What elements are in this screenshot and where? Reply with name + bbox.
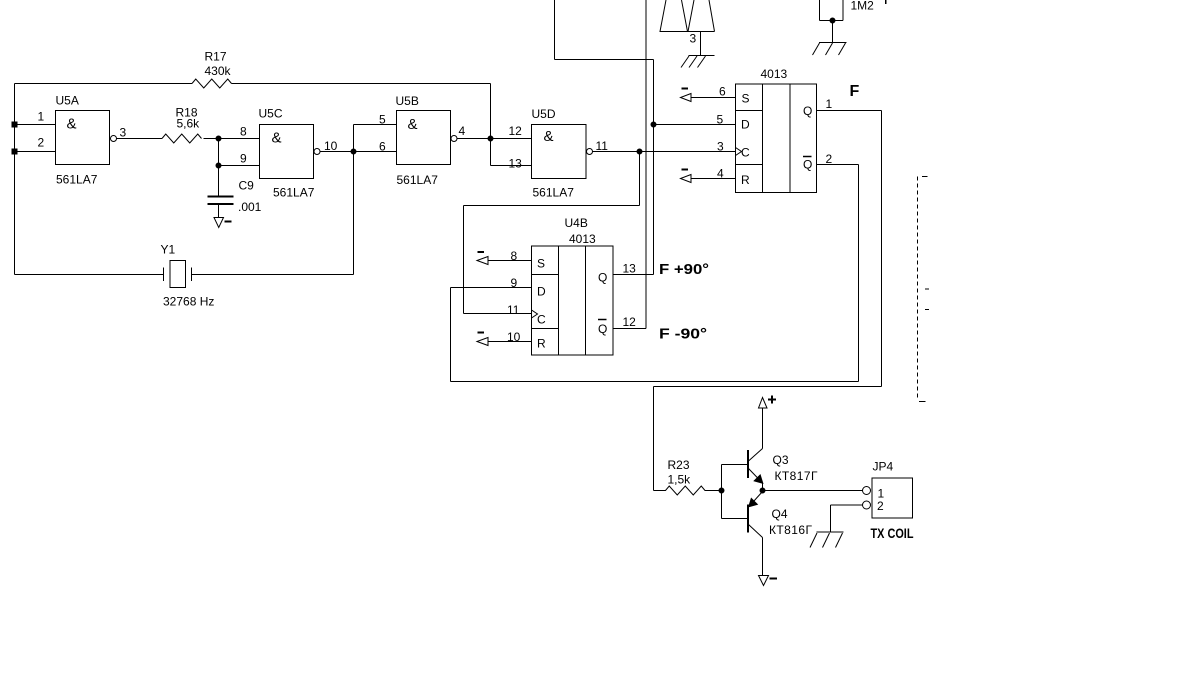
svg-text:F: F <box>850 83 860 100</box>
svg-text:13: 13 <box>623 262 637 276</box>
ground below triangles <box>689 55 715 57</box>
wire node down <box>218 139 220 166</box>
wire C9 bottom lead <box>218 204 220 218</box>
resistor R17 <box>192 79 232 88</box>
wire node vertical pin5-crystal <box>353 125 355 275</box>
flipflop FF1 4013 box <box>736 84 817 193</box>
svg-text:32768 Hz: 32768 Hz <box>163 295 214 309</box>
FF1 Qbar output wire pin2 <box>817 164 859 166</box>
svg-text:2: 2 <box>38 136 45 150</box>
crystal Y1 right wire <box>192 274 354 276</box>
wire F net horizontal <box>654 386 882 388</box>
dashed boundary line <box>917 177 919 399</box>
junction node pin4 <box>488 136 493 141</box>
svg-text:Q: Q <box>803 158 812 172</box>
wire D feedback vertical <box>450 288 452 382</box>
wire F+90 net vertical <box>653 60 655 275</box>
wire vertical down to U4B C <box>463 206 465 314</box>
U4B R input wire pin10 <box>488 341 532 343</box>
svg-text:&: & <box>408 116 418 133</box>
cut-off tick mark <box>885 0 887 4</box>
wire to U5C pin9 <box>219 165 260 167</box>
svg-text:12: 12 <box>623 315 637 329</box>
wire U5B pin5 <box>354 124 397 126</box>
svg-text:8: 8 <box>240 125 247 139</box>
wire Qbar feedback horizontal <box>451 381 859 383</box>
svg-text:D: D <box>741 118 750 132</box>
svg-text:U5C: U5C <box>259 107 283 121</box>
wire U5D pin13 <box>491 165 533 167</box>
node port square pin2 <box>12 149 17 154</box>
connector JP4 box <box>872 478 913 518</box>
svg-text:Q3: Q3 <box>773 453 789 467</box>
gate U5B bubble pin4 <box>451 136 457 142</box>
wire left feedback vertical <box>14 84 16 275</box>
ground below 1M2 <box>819 42 847 44</box>
ground below JP4 <box>817 531 844 533</box>
wire cut-off net top-left vertical <box>554 0 556 60</box>
gate U5D box <box>532 125 587 179</box>
resistor R18 <box>162 134 202 143</box>
svg-text:2: 2 <box>826 152 833 166</box>
gate U5D bubble pin11 <box>587 149 593 155</box>
wire node down pin13 <box>490 139 492 166</box>
wire Q3 collector up <box>762 408 764 449</box>
svg-text:10: 10 <box>324 139 338 153</box>
junction node pin10 <box>351 149 356 154</box>
resistor R23 <box>654 486 722 495</box>
ground minus arrow below C9 <box>214 218 224 228</box>
wire U5A pin1 <box>15 124 56 126</box>
FF1 R inactive-level symbol <box>681 175 692 183</box>
svg-text:КТ816Г: КТ816Г <box>769 523 813 537</box>
wire pin3 to ground <box>700 32 702 56</box>
svg-text:S: S <box>742 92 750 106</box>
svg-text:8: 8 <box>511 249 518 263</box>
svg-text:1: 1 <box>38 110 45 124</box>
wire U5D pin12 <box>491 138 533 140</box>
gate U5C box <box>260 125 314 179</box>
svg-text:5: 5 <box>379 113 386 127</box>
connector JP4 pin2 circle <box>863 501 871 509</box>
svg-text:Q: Q <box>598 322 607 336</box>
svg-text:S: S <box>537 257 545 271</box>
svg-text:561LA7: 561LA7 <box>273 186 315 200</box>
connector JP4 pin1 circle <box>863 487 871 495</box>
FF1 R input wire pin4 <box>691 178 736 180</box>
svg-text:F -90°: F -90° <box>659 326 707 343</box>
FF1 S input wire pin6 <box>691 97 736 99</box>
wire pin11 to FF1 C <box>593 151 736 153</box>
wire C9 top lead <box>218 166 220 197</box>
wire F-90 net vertical <box>645 0 647 329</box>
crystal Y1 left wire <box>15 274 164 276</box>
svg-text:Q4: Q4 <box>772 507 788 521</box>
svg-text:11: 11 <box>507 303 520 317</box>
svg-text:U5B: U5B <box>396 94 419 108</box>
svg-text:&: & <box>544 128 554 145</box>
svg-text:R: R <box>537 337 546 351</box>
capacitor C9 <box>208 197 234 205</box>
svg-text:R: R <box>741 173 750 187</box>
node port square pin1 <box>12 122 17 127</box>
svg-text:561LA7: 561LA7 <box>397 173 439 187</box>
svg-text:U5D: U5D <box>532 107 556 121</box>
svg-text:6: 6 <box>719 85 726 99</box>
wire Q4 collector down <box>762 538 764 576</box>
wire pin3 to R18 <box>117 138 163 140</box>
FF1 Q output wire pin1 <box>817 110 882 112</box>
svg-text:1: 1 <box>826 97 833 111</box>
transistor Q4 <box>747 505 749 533</box>
junction node FF1 D <box>651 122 656 127</box>
junction node pin9 <box>216 163 221 168</box>
U4B Q output wire pin13 <box>613 274 654 276</box>
svg-text:430k: 430k <box>205 64 232 78</box>
svg-text:2: 2 <box>877 499 884 513</box>
svg-text:1,5k: 1,5k <box>668 473 692 487</box>
wire top R17 net right <box>232 83 491 85</box>
U4B S input wire pin8 <box>488 260 532 262</box>
svg-text:561LA7: 561LA7 <box>56 173 98 187</box>
flipflop FF1 clock mark <box>736 148 742 156</box>
svg-text:U4B: U4B <box>565 216 588 230</box>
wire F net down to R23 <box>653 387 655 491</box>
svg-text:9: 9 <box>240 152 247 166</box>
wire 1M2 to ground <box>832 21 834 43</box>
junction node R23 bases <box>719 488 724 493</box>
wire top R17 net left <box>15 83 193 85</box>
svg-text:6: 6 <box>379 140 386 154</box>
wire U5A pin2 <box>15 151 56 153</box>
U4B R inactive-level symbol <box>477 338 488 346</box>
flipflop U4B 4013 box <box>532 246 614 355</box>
wire R17 net down to node <box>490 84 492 139</box>
wire F net down <box>881 111 883 387</box>
svg-text:4013: 4013 <box>761 67 788 81</box>
wire output to JP4 pin1 <box>763 490 863 492</box>
svg-text:C: C <box>741 146 750 160</box>
svg-text:F +90°: F +90° <box>659 261 709 278</box>
svg-text:4: 4 <box>717 167 724 181</box>
gate U5A box <box>56 111 110 165</box>
svg-text:&: & <box>272 130 282 147</box>
gate U5B box <box>397 111 451 165</box>
svg-text:R17: R17 <box>205 50 227 64</box>
svg-text:561LA7: 561LA7 <box>533 186 575 200</box>
power +supply symbol <box>759 398 768 409</box>
wire Q3 base <box>722 464 749 466</box>
svg-text:JP4: JP4 <box>873 460 894 474</box>
U4B S inactive-level symbol <box>477 257 488 265</box>
U4B Qbar output wire pin12 <box>613 328 646 330</box>
svg-text:.001: .001 <box>238 200 262 214</box>
crystal Y1 <box>164 268 192 282</box>
svg-text:4: 4 <box>459 124 466 138</box>
wire cut-off net horizontal <box>555 59 654 61</box>
junction node R18-C9 <box>216 136 221 141</box>
svg-text:D: D <box>537 285 546 299</box>
wire pin4 to node <box>457 138 491 140</box>
wire pin10 to node <box>320 151 354 153</box>
wire U4B pin11 C input <box>464 313 532 315</box>
svg-text:TX COIL: TX COIL <box>871 525 914 541</box>
svg-text:3: 3 <box>120 126 127 140</box>
gate U5C bubble pin10 <box>314 149 320 155</box>
svg-text:Q: Q <box>803 104 812 118</box>
svg-text:12: 12 <box>509 124 523 138</box>
svg-text:&: & <box>67 116 77 133</box>
junction node output <box>760 488 765 493</box>
svg-text:13: 13 <box>509 157 523 171</box>
svg-text:КТ817Г: КТ817Г <box>775 469 819 483</box>
wire R18 to U5C pin8 <box>204 138 260 140</box>
svg-text:5: 5 <box>717 113 724 127</box>
cut-off symbol triangles baseline <box>660 31 715 33</box>
svg-text:4013: 4013 <box>569 232 596 246</box>
junction node pin11 <box>637 149 642 154</box>
svg-text:3: 3 <box>717 140 724 154</box>
wire base bus vertical <box>721 465 723 519</box>
svg-text:U5A: U5A <box>56 94 79 108</box>
transistor Q3 <box>747 450 749 478</box>
wire JP4 pin2 to ground <box>831 504 863 506</box>
FF1 D input wire pin5 <box>654 124 736 126</box>
wire horizontal to left <box>464 205 640 207</box>
svg-text:5,6k: 5,6k <box>177 117 201 131</box>
flipflop U4B clock mark <box>532 310 538 318</box>
cut-off triangle 1 <box>660 0 688 32</box>
junction node 1M2 <box>830 18 835 23</box>
wire Q4 base <box>722 518 749 520</box>
svg-text:R23: R23 <box>668 458 690 472</box>
gate U5A bubble pin3 <box>111 136 117 142</box>
svg-text:Q: Q <box>598 271 607 285</box>
svg-text:Y1: Y1 <box>161 243 176 257</box>
svg-text:9: 9 <box>511 276 518 290</box>
power -supply symbol <box>759 576 769 586</box>
FF1 S inactive-level symbol <box>681 94 692 102</box>
svg-text:10: 10 <box>507 330 521 344</box>
svg-text:C: C <box>537 313 546 327</box>
svg-text:C9: C9 <box>239 179 255 193</box>
resistor 1M2 cut-off box <box>820 0 844 21</box>
wire pin11 node down <box>639 152 641 206</box>
cut-off triangle 2 <box>688 0 715 32</box>
svg-text:3: 3 <box>690 32 697 46</box>
wire U5B pin6 <box>354 151 397 153</box>
wire Qbar net down <box>858 165 860 382</box>
U4B D input wire pin9 <box>451 287 532 289</box>
svg-text:11: 11 <box>596 139 609 153</box>
svg-text:1M2: 1M2 <box>851 0 875 13</box>
